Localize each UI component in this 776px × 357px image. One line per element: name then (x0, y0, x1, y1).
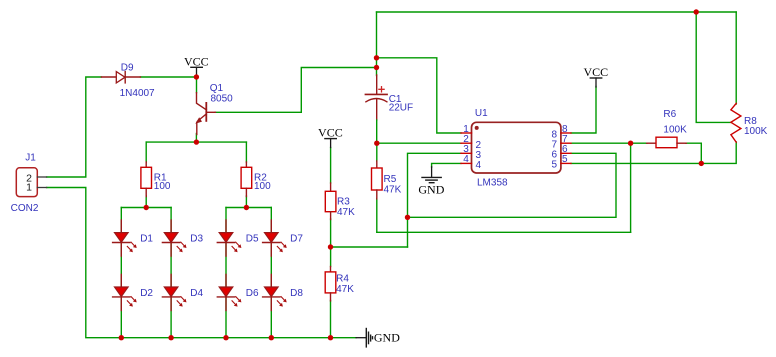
node rail col2 (168, 335, 173, 340)
wire R5 bottom horizontal line (377, 231, 631, 233)
wire R6 right to pin5 line (686, 143, 701, 163)
node rail col1 (119, 335, 124, 340)
wire Q1 emitter to R1/R2 rail (195, 134, 197, 143)
wire R3/R4 node to pin3 drop (331, 246, 408, 248)
svg-text:D4: D4 (190, 288, 203, 299)
svg-text:J1: J1 (25, 152, 36, 163)
svg-text:Q1: Q1 (210, 83, 224, 94)
svg-text:R6: R6 (663, 109, 676, 120)
svg-text:5: 5 (551, 160, 557, 171)
wire pin3 down to R3/R4 node (408, 153, 462, 247)
node pin5 R6 (699, 161, 704, 166)
svg-text:47K: 47K (337, 207, 355, 218)
svg-text:GND: GND (418, 183, 444, 197)
wire pin6 to pin3 net (408, 153, 617, 217)
transistor Q1 (195, 93, 215, 135)
LED D5 (217, 220, 241, 256)
svg-text:VCC: VCC (318, 126, 343, 140)
svg-text:D6: D6 (246, 288, 259, 299)
VCC symbol middle (318, 126, 343, 148)
node C1 top upper (374, 55, 379, 60)
node top rail (694, 9, 699, 14)
svg-text:D2: D2 (140, 288, 153, 299)
wire R3 bottom to node (330, 219, 332, 267)
LED D6 (217, 274, 241, 310)
node rail col4 (269, 335, 274, 340)
svg-text:D8: D8 (290, 288, 303, 299)
wire LED group2 rail (226, 207, 271, 209)
op-amp U1 (461, 122, 571, 173)
svg-text:D7: D7 (290, 234, 303, 245)
node C1 bottom (374, 141, 379, 146)
resistor R5 (372, 161, 383, 199)
wire top rail drop to C1 (376, 12, 378, 76)
ground symbol bottom (356, 329, 400, 347)
resistor R8 (731, 103, 741, 142)
wire Q1 base to C1 top node (215, 68, 376, 113)
wire VCC node to Q1 collector (196, 77, 198, 93)
node pin3 pin6 (405, 215, 410, 220)
svg-text:100K: 100K (663, 125, 687, 136)
wire top rail to R8 top (735, 12, 737, 104)
wire R8 bottom to pin5 line (571, 142, 736, 163)
node R2 bottom (244, 205, 249, 210)
wire pin7 node down to R5 bottom line (630, 143, 632, 232)
wire VCC to R3 top (330, 148, 332, 184)
wire C1 node to R5 top (376, 143, 378, 161)
svg-text:100K: 100K (744, 126, 768, 137)
resistor R2 (241, 162, 252, 197)
svg-text:VCC: VCC (184, 54, 209, 68)
node R1 bottom (144, 205, 149, 210)
svg-text:D3: D3 (190, 234, 203, 245)
svg-text:R4: R4 (336, 273, 349, 284)
svg-text:1N4007: 1N4007 (120, 88, 155, 99)
resistor R4 (325, 267, 336, 301)
svg-text:100: 100 (154, 181, 171, 192)
svg-text:22UF: 22UF (389, 102, 413, 113)
wire R1/R2 top rail (146, 141, 246, 143)
LED D1 (113, 220, 137, 256)
node rail R4 (328, 335, 333, 340)
wire pin2 to C1 node (377, 142, 461, 144)
LED D3 (162, 220, 186, 256)
LED D2 (113, 274, 137, 310)
svg-text:VCC: VCC (583, 65, 608, 79)
resistor R6 (647, 137, 686, 148)
svg-text:4: 4 (476, 160, 482, 171)
wire J1 pin1 to ground rail (47, 188, 357, 338)
VCC symbol top-left (184, 54, 209, 77)
resistor R1 (141, 162, 152, 197)
svg-text:1: 1 (26, 182, 32, 194)
wire LED group1 rail (121, 207, 171, 209)
LED D8 (263, 274, 287, 310)
resistor R3 (325, 183, 336, 220)
svg-text:CON2: CON2 (11, 203, 39, 214)
svg-text:R5: R5 (384, 174, 397, 185)
svg-text:5: 5 (562, 154, 568, 165)
svg-text:D1: D1 (140, 234, 153, 245)
svg-text:GND: GND (374, 331, 400, 345)
diode D9 (101, 72, 140, 83)
node R3 R4 (328, 244, 333, 249)
svg-text:4: 4 (463, 154, 469, 165)
svg-text:D9: D9 (121, 63, 134, 74)
wire R5 bottom down (376, 199, 378, 233)
wire pin8 to VCC (571, 87, 596, 134)
wire top rail to R8 mid tap (696, 12, 731, 122)
node VCC top (194, 74, 199, 79)
node C1 top lower (374, 65, 379, 70)
wire top power rail (377, 11, 737, 13)
wire pin4 to GND (432, 163, 461, 167)
wire LED column 2 (170, 208, 172, 338)
ground symbol near U1 (418, 167, 444, 197)
VCC symbol right (583, 65, 608, 87)
wire D9 cathode to VCC node (140, 76, 196, 78)
wire LED column 3 (225, 208, 227, 338)
svg-text:D5: D5 (246, 234, 259, 245)
svg-text:LM358: LM358 (477, 178, 508, 189)
LED D7 (263, 220, 287, 256)
wire R2 bottom to LED group2 rail (245, 196, 247, 208)
wire LED column 4 (270, 208, 272, 338)
wire R1 bottom to LED group1 rail (145, 196, 147, 208)
svg-text:47K: 47K (336, 284, 354, 295)
wire pin7 line left of R6 (571, 142, 647, 144)
wire rail to R2 top (245, 142, 247, 162)
svg-text:8050: 8050 (211, 94, 234, 105)
svg-text:100: 100 (254, 181, 271, 192)
svg-text:47K: 47K (384, 185, 402, 196)
wire rail to R1 top (145, 142, 147, 162)
wire J1 pin2 to D9 anode (47, 77, 102, 177)
wire R4 bottom to ground rail (330, 301, 332, 338)
wire LED column 1 (120, 208, 122, 338)
node rail col3 (223, 335, 228, 340)
svg-text:R3: R3 (337, 197, 350, 208)
node pin7 (628, 141, 633, 146)
capacitor C1 (365, 75, 387, 143)
LED D4 (162, 274, 186, 310)
svg-text:U1: U1 (475, 108, 488, 119)
node Q1 emitter (194, 139, 199, 144)
connector J1 (16, 168, 46, 197)
wire pin1 to C1 top node (377, 58, 462, 133)
